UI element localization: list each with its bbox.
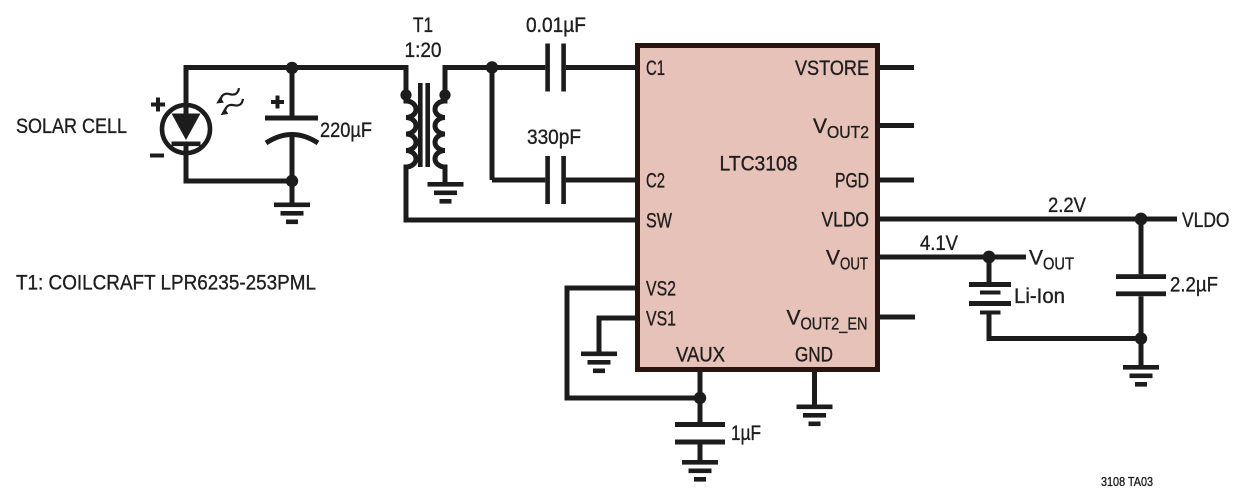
svg-text:T1: COILCRAFT LPR6235-253PML: T1: COILCRAFT LPR6235-253PML [16, 272, 316, 295]
svg-text:T1: T1 [413, 14, 433, 37]
svg-text:OUT: OUT [840, 254, 868, 274]
svg-text:220µF: 220µF [320, 119, 372, 142]
svg-text:330pF: 330pF [527, 126, 581, 149]
svg-text:LTC3108: LTC3108 [720, 153, 798, 176]
svg-text:2.2V: 2.2V [1048, 194, 1086, 217]
svg-text:VS1: VS1 [646, 308, 676, 331]
svg-text:VSTORE: VSTORE [795, 57, 869, 80]
svg-text:V: V [826, 247, 840, 270]
svg-text:1:20: 1:20 [405, 39, 442, 62]
svg-text:Li-Ion: Li-Ion [1014, 285, 1065, 308]
svg-text:0.01µF: 0.01µF [526, 14, 586, 37]
svg-text:VLDO: VLDO [822, 209, 870, 232]
svg-text:4.1V: 4.1V [920, 232, 958, 255]
svg-text:3108 TA03: 3108 TA03 [1101, 474, 1153, 489]
svg-text:SOLAR CELL: SOLAR CELL [16, 115, 127, 138]
svg-text:GND: GND [795, 344, 833, 367]
svg-text:OUT2_EN: OUT2_EN [801, 314, 868, 335]
svg-text:V: V [787, 307, 801, 330]
svg-text:2.2µF: 2.2µF [1170, 274, 1218, 297]
svg-text:C2: C2 [646, 170, 665, 193]
svg-text:V: V [1029, 247, 1043, 270]
svg-text:VAUX: VAUX [676, 344, 725, 367]
svg-text:VLDO: VLDO [1182, 209, 1230, 232]
svg-text:1µF: 1µF [731, 422, 761, 445]
svg-text:C1: C1 [646, 57, 665, 80]
svg-text:PGD: PGD [835, 170, 869, 193]
svg-text:OUT2: OUT2 [827, 122, 869, 142]
svg-text:SW: SW [646, 210, 672, 233]
svg-text:V: V [813, 115, 827, 138]
svg-text:VS2: VS2 [646, 278, 676, 301]
svg-text:OUT: OUT [1043, 254, 1074, 274]
